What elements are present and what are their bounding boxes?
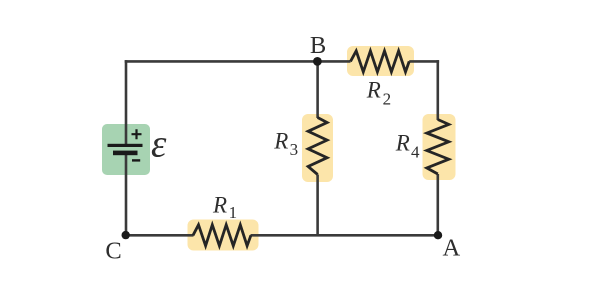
resistor R2 zigzag bbox=[351, 51, 410, 72]
node A junction dot bbox=[434, 231, 442, 239]
wire: middle branch from B to R3 bbox=[316, 61, 319, 118]
node C junction dot bbox=[122, 231, 130, 239]
wire: bottom from C to R1 bbox=[126, 234, 194, 237]
resistor R3 highlight box bbox=[302, 114, 333, 182]
resistor R2 highlight box bbox=[347, 46, 414, 76]
wire: right side from top corner to R4 bbox=[436, 60, 439, 120]
svg-text:R: R bbox=[212, 192, 227, 217]
svg-text:R: R bbox=[395, 131, 410, 156]
svg-text:R: R bbox=[273, 129, 288, 154]
resistor R3 zigzag bbox=[308, 118, 327, 175]
battery minus sign bbox=[132, 159, 140, 161]
battery plus sign bbox=[132, 129, 142, 139]
svg-text:R: R bbox=[366, 78, 381, 103]
svg-text:2: 2 bbox=[383, 90, 392, 109]
node B junction dot bbox=[313, 57, 322, 66]
svg-text:1: 1 bbox=[229, 203, 238, 222]
wire: middle branch from R3 to bottom wire bbox=[316, 175, 319, 237]
wire: right side from R4 to node A bbox=[436, 174, 439, 235]
wire: top right from R2 to corner bbox=[409, 60, 439, 63]
wire: left side lower (battery bottom plate down to node C) bbox=[125, 154, 128, 235]
svg-text:3: 3 bbox=[290, 140, 299, 159]
resistor R1 highlight box bbox=[188, 220, 259, 251]
resistor R4 highlight box bbox=[423, 114, 456, 180]
battery top plate (positive, long) bbox=[108, 144, 143, 147]
wire: bottom from R1 past R3 branch to node A bbox=[251, 234, 439, 237]
svg-text:A: A bbox=[442, 235, 460, 262]
resistor R4 zigzag bbox=[427, 120, 449, 175]
svg-text:4: 4 bbox=[411, 142, 420, 161]
battery bottom plate (negative, short thick) bbox=[113, 151, 138, 156]
svg-text:ε: ε bbox=[151, 123, 167, 166]
wire: left side upper (top corner down to battery top plate) bbox=[125, 60, 128, 144]
svg-text:C: C bbox=[105, 238, 121, 265]
resistor R1 zigzag bbox=[193, 225, 251, 246]
svg-text:B: B bbox=[310, 32, 326, 59]
wire: top from node above battery to B and on to R2 bbox=[125, 60, 351, 63]
battery highlight box bbox=[102, 124, 150, 175]
